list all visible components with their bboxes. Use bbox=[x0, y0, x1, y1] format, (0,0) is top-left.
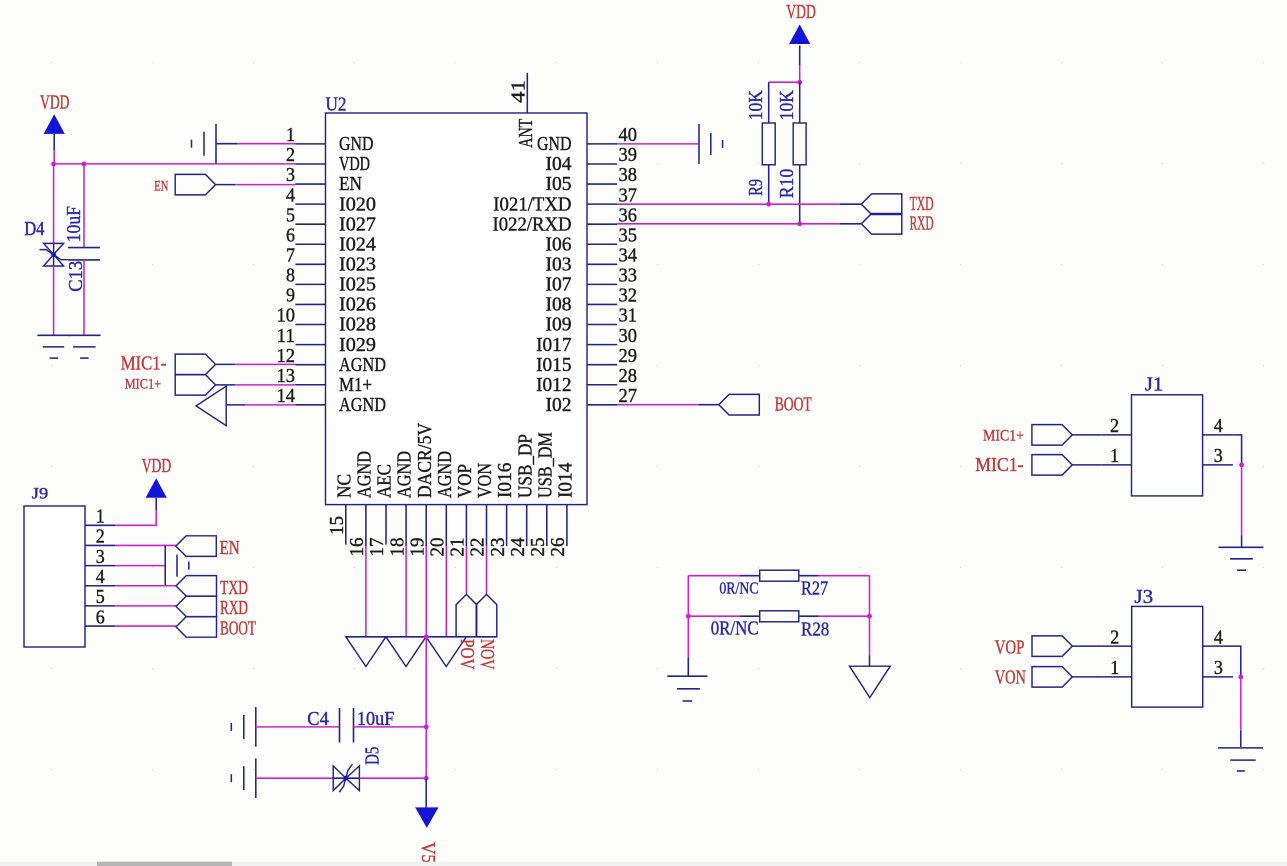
ground (D4) bbox=[37, 334, 70, 336]
wire J9 pin1 to VDD bbox=[115, 510, 156, 525]
wire R28 left bbox=[688, 615, 740, 617]
svg-text:32: 32 bbox=[619, 286, 638, 307]
svg-text:0R/NC: 0R/NC bbox=[719, 578, 758, 597]
svg-text:USB_DM: USB_DM bbox=[535, 432, 556, 498]
U2 pin 29 (I015) bbox=[587, 364, 617, 366]
svg-text:11: 11 bbox=[277, 326, 296, 347]
U2 pin 2 (VDD) bbox=[295, 163, 325, 165]
U2 pin 22 (VON) bbox=[486, 505, 488, 546]
svg-text:J1: J1 bbox=[1145, 374, 1163, 395]
wire MIC1- to J1 pin 1 bbox=[1072, 464, 1101, 466]
wire J1 pin4 to pin3 bbox=[1233, 435, 1242, 465]
U2 pin 21 (VOP) bbox=[465, 505, 467, 546]
port MIC1+ bbox=[175, 375, 215, 396]
J9 pin 1 bbox=[85, 524, 115, 526]
resistor R28 bbox=[760, 611, 799, 622]
U2 pin 25 (USB_DM) bbox=[546, 505, 548, 546]
capacitor C4 bbox=[339, 708, 341, 743]
ground (C13) bbox=[68, 334, 101, 336]
wire VOP to J3 pin 2 bbox=[1073, 645, 1102, 647]
svg-text:TXD: TXD bbox=[910, 194, 934, 215]
svg-text:34: 34 bbox=[619, 246, 638, 267]
power symbol VDD bbox=[789, 24, 810, 44]
svg-text:I029: I029 bbox=[339, 335, 376, 356]
svg-text:BOOT: BOOT bbox=[220, 618, 256, 639]
analog ground triangle 3 bbox=[426, 637, 466, 667]
U2 pin 8 (I025) bbox=[295, 283, 325, 285]
wire to ground bbox=[1241, 465, 1243, 536]
svg-text:I020: I020 bbox=[339, 194, 376, 215]
port VOP bbox=[456, 594, 477, 636]
svg-text:I021/TXD: I021/TXD bbox=[493, 194, 571, 215]
svg-text:I025: I025 bbox=[339, 275, 376, 296]
svg-text:MIC1+: MIC1+ bbox=[125, 376, 161, 392]
svg-text:0R/NC: 0R/NC bbox=[711, 619, 759, 640]
svg-text:D4: D4 bbox=[24, 219, 45, 240]
svg-text:19: 19 bbox=[407, 538, 428, 557]
svg-text:MIC1-: MIC1- bbox=[975, 455, 1023, 476]
svg-text:R10: R10 bbox=[777, 169, 798, 199]
svg-text:U2: U2 bbox=[326, 94, 347, 115]
svg-text:3: 3 bbox=[1214, 658, 1223, 679]
wire left drop bbox=[687, 576, 689, 617]
svg-text:AGND: AGND bbox=[339, 355, 386, 376]
svg-text:NC: NC bbox=[334, 474, 355, 498]
port EN bbox=[176, 536, 217, 557]
svg-text:R27: R27 bbox=[801, 578, 828, 599]
U2 pin 17 (AEC) bbox=[385, 505, 387, 545]
port MIC1- bbox=[1032, 455, 1072, 476]
svg-text:37: 37 bbox=[619, 185, 638, 206]
ground bbox=[667, 675, 707, 677]
power symbol VDD bbox=[44, 114, 65, 134]
svg-text:M1+: M1+ bbox=[339, 375, 372, 396]
wire R27 left bbox=[688, 575, 740, 577]
wire VDD stem bbox=[53, 134, 55, 150]
J1 pin 1 bbox=[1101, 464, 1131, 466]
svg-text:31: 31 bbox=[619, 306, 638, 327]
J3 pin 3 bbox=[1203, 676, 1233, 678]
U2 pin 32 (I08) bbox=[587, 303, 617, 305]
wire U2 pin 37 to TXD bbox=[617, 203, 840, 205]
svg-text:5: 5 bbox=[96, 587, 105, 608]
node junction VDD/R10 bbox=[797, 80, 802, 85]
wire J9 pin5 to RXD bbox=[115, 605, 176, 607]
wire VDD rail to U2 pin 2 bbox=[54, 163, 296, 165]
wire ground to U2 pin 1 bbox=[216, 143, 237, 145]
wire U2 pin 40 to ground bbox=[617, 143, 699, 145]
svg-text:18: 18 bbox=[387, 538, 408, 557]
wire J9 pin3 to ground bbox=[115, 565, 165, 567]
U2 pin 12 (AGND) bbox=[295, 364, 325, 366]
port VON bbox=[1032, 667, 1072, 688]
U2 pin 10 (I028) bbox=[295, 324, 325, 326]
svg-text:I02: I02 bbox=[546, 395, 572, 416]
ground bbox=[215, 124, 217, 164]
wire to ground left bbox=[687, 616, 689, 657]
wire D4 top lead bbox=[53, 164, 55, 244]
J1 pin 3 bbox=[1203, 464, 1233, 466]
U2 pin 26 (I014) bbox=[566, 505, 568, 546]
node junction R10/RXD bbox=[797, 221, 802, 226]
U2 pin 4 (I020) bbox=[295, 203, 325, 205]
wire R27 right bbox=[799, 575, 819, 577]
svg-text:I08: I08 bbox=[546, 295, 572, 316]
svg-text:3: 3 bbox=[1214, 446, 1223, 467]
U2 pin 40 (GND) bbox=[587, 143, 617, 145]
wire MIC1+ to U2 pin 13 bbox=[216, 384, 236, 386]
svg-text:RXD: RXD bbox=[220, 598, 248, 619]
wire to AGND right bbox=[869, 616, 871, 655]
svg-text:GND: GND bbox=[339, 134, 374, 155]
svg-text:I023: I023 bbox=[339, 255, 376, 276]
U2 pin 39 (I04) bbox=[587, 163, 617, 165]
J9 pin 2 bbox=[85, 544, 115, 546]
svg-text:8: 8 bbox=[286, 266, 295, 287]
svg-text:2: 2 bbox=[286, 145, 295, 166]
svg-text:MIC1+: MIC1+ bbox=[983, 428, 1024, 445]
U2 pin 33 (I07) bbox=[587, 283, 617, 285]
U2 pin 16 (AGND) bbox=[365, 505, 367, 546]
svg-text:26: 26 bbox=[548, 537, 569, 556]
U2 pin 24 (USB_DP) bbox=[526, 505, 528, 546]
port RXD bbox=[176, 596, 217, 617]
wire MIC1+ to J1 pin 2 bbox=[1072, 434, 1101, 436]
svg-text:41: 41 bbox=[509, 80, 530, 103]
svg-text:I024: I024 bbox=[339, 234, 376, 255]
svg-text:D5: D5 bbox=[363, 747, 384, 765]
resistor R10 bbox=[799, 82, 801, 123]
svg-text:I09: I09 bbox=[546, 315, 572, 336]
svg-text:I05: I05 bbox=[546, 174, 572, 195]
wire U2 pin 27 to BOOT bbox=[617, 404, 698, 406]
wire J9 pin4 to TXD bbox=[115, 585, 176, 587]
U2 pin 13 (M1+) bbox=[295, 384, 325, 386]
U2 pin 3 (EN) bbox=[295, 183, 325, 185]
U2 pin 6 (I024) bbox=[295, 243, 325, 245]
svg-text:ANT: ANT bbox=[516, 119, 537, 148]
U2 pin 11 (I029) bbox=[295, 344, 325, 346]
wire VDD stem bbox=[799, 46, 801, 66]
J9 pin 5 bbox=[85, 605, 115, 607]
svg-text:TXD: TXD bbox=[220, 578, 248, 599]
connector J1 body bbox=[1132, 395, 1203, 496]
port TXD bbox=[176, 576, 217, 597]
port MIC1+ bbox=[1032, 425, 1072, 446]
node junction C4 bbox=[424, 725, 429, 730]
svg-text:4: 4 bbox=[1214, 627, 1223, 648]
wire right drop bbox=[869, 576, 871, 617]
U2 pin 30 (I017) bbox=[587, 344, 617, 346]
wire MIC1- to U2 pin 12 bbox=[216, 363, 236, 365]
wire C13 top lead bbox=[83, 164, 85, 248]
wire D5 to junction bbox=[359, 777, 426, 779]
svg-text:17: 17 bbox=[367, 537, 388, 556]
resistor R9 bbox=[768, 82, 770, 123]
svg-text:10K: 10K bbox=[746, 90, 767, 120]
wire D4 bottom lead bbox=[53, 266, 55, 335]
wire R28 right bbox=[799, 615, 819, 617]
svg-text:24: 24 bbox=[508, 537, 529, 556]
port VON bbox=[476, 594, 497, 636]
svg-text:9: 9 bbox=[286, 286, 295, 307]
wire J9 pin6 to BOOT bbox=[115, 625, 176, 627]
svg-text:I014: I014 bbox=[556, 462, 577, 498]
svg-text:I06: I06 bbox=[546, 234, 572, 255]
J3 pin 4 bbox=[1203, 645, 1233, 647]
svg-text:NOV: NOV bbox=[476, 639, 497, 670]
svg-text:RXD: RXD bbox=[910, 214, 934, 235]
U2 pin 31 (I09) bbox=[587, 324, 617, 326]
ground bbox=[698, 124, 700, 164]
svg-text:AEC: AEC bbox=[375, 464, 396, 498]
svg-text:VON: VON bbox=[995, 668, 1026, 689]
svg-text:33: 33 bbox=[619, 266, 638, 287]
svg-text:12: 12 bbox=[277, 346, 296, 367]
svg-text:10uF: 10uF bbox=[64, 206, 85, 242]
port BOOT bbox=[719, 394, 760, 415]
svg-text:4: 4 bbox=[96, 567, 105, 588]
node junction J1 pin3 bbox=[1239, 463, 1244, 468]
port MIC1- bbox=[175, 354, 215, 375]
svg-text:I028: I028 bbox=[339, 315, 376, 336]
J9 pin 3 bbox=[85, 565, 115, 567]
svg-text:VOP: VOP bbox=[455, 464, 476, 498]
wire ground to D5 bbox=[256, 777, 333, 779]
svg-text:AGND: AGND bbox=[339, 395, 386, 416]
U2 pin 34 (I03) bbox=[587, 263, 617, 265]
svg-text:I026: I026 bbox=[339, 295, 376, 316]
port VOP bbox=[1032, 636, 1072, 657]
node junction VDD/D4 bbox=[51, 162, 56, 167]
capacitor C13 bbox=[68, 247, 100, 249]
wire J9 pin2 to EN bbox=[115, 544, 176, 546]
svg-text:VOP: VOP bbox=[995, 638, 1025, 659]
node junction R28 left bbox=[686, 614, 691, 619]
U2 pin 9 (I026) bbox=[295, 303, 325, 305]
J9 pin 4 bbox=[85, 585, 115, 587]
wire ground to C4 bbox=[256, 726, 340, 728]
svg-text:VDD: VDD bbox=[786, 2, 816, 23]
svg-text:3: 3 bbox=[286, 165, 295, 186]
svg-text:I015: I015 bbox=[536, 355, 571, 376]
port TXD bbox=[861, 194, 902, 215]
wire U2 pin 20 to AGND bar bbox=[445, 546, 447, 637]
U2 pin 27 (I02) bbox=[587, 404, 617, 406]
U2 pin 20 (AGND) bbox=[445, 505, 447, 546]
svg-text:J9: J9 bbox=[32, 485, 49, 502]
svg-text:C4: C4 bbox=[307, 709, 329, 730]
U2 pin 1 (GND) bbox=[295, 143, 325, 145]
svg-text:2: 2 bbox=[96, 527, 105, 548]
analog ground triangle bbox=[850, 666, 891, 697]
svg-text:28: 28 bbox=[619, 366, 638, 387]
U2 pin 28 (I012) bbox=[587, 384, 617, 386]
svg-text:23: 23 bbox=[488, 538, 509, 557]
svg-text:I04: I04 bbox=[546, 154, 572, 175]
svg-text:BOOT: BOOT bbox=[775, 395, 812, 416]
svg-text:I03: I03 bbox=[546, 255, 572, 276]
svg-text:I07: I07 bbox=[546, 275, 572, 296]
analog ground triangle (pin 14) bbox=[196, 386, 226, 426]
node junction R28 right bbox=[867, 614, 872, 619]
U2 pin 14 (AGND) bbox=[295, 404, 325, 406]
svg-text:35: 35 bbox=[619, 225, 638, 246]
wire J3 pin4 to pin3 bbox=[1233, 646, 1241, 677]
wire to ground bbox=[1240, 677, 1242, 731]
svg-text:J3: J3 bbox=[1134, 587, 1153, 608]
svg-text:29: 29 bbox=[619, 346, 638, 367]
wire C4 to junction bbox=[354, 726, 427, 728]
svg-text:14: 14 bbox=[277, 386, 296, 407]
node junction pin19/AGND bar bbox=[424, 634, 429, 639]
node junction J3 pin3 bbox=[1238, 675, 1243, 680]
svg-text:10K: 10K bbox=[777, 90, 798, 120]
analog ground triangle 1 bbox=[346, 637, 386, 667]
svg-text:4: 4 bbox=[286, 185, 295, 206]
svg-text:38: 38 bbox=[619, 165, 638, 186]
ground bbox=[255, 758, 257, 798]
svg-text:VDD: VDD bbox=[142, 456, 172, 477]
J1 pin 4 bbox=[1203, 434, 1233, 436]
IC U2 body bbox=[326, 113, 588, 505]
svg-text:6: 6 bbox=[286, 225, 295, 246]
wire to 5V arrow bbox=[425, 778, 427, 807]
svg-text:2: 2 bbox=[1110, 627, 1119, 648]
ground bbox=[1219, 546, 1264, 548]
wire U2 pin 19 (DACR/5V) down bbox=[425, 546, 427, 637]
U2 pin 23 (I016) bbox=[506, 505, 508, 546]
svg-text:16: 16 bbox=[347, 537, 368, 556]
svg-text:7: 7 bbox=[286, 246, 295, 267]
node junction R9/TXD bbox=[766, 202, 771, 207]
wire R9 top link bbox=[769, 81, 800, 83]
svg-text:15: 15 bbox=[327, 516, 348, 535]
analog ground bar bbox=[346, 636, 497, 638]
U2 pin 7 (I023) bbox=[295, 263, 325, 265]
svg-text:6: 6 bbox=[96, 607, 105, 628]
U2 pin 38 (I05) bbox=[587, 183, 617, 185]
svg-text:1: 1 bbox=[1110, 446, 1119, 467]
svg-text:27: 27 bbox=[619, 386, 638, 407]
svg-text:13: 13 bbox=[277, 366, 296, 387]
svg-text:POV: POV bbox=[456, 639, 477, 670]
wire U2 pin 22 to VON port bbox=[486, 546, 488, 594]
wire C13 bottom lead bbox=[83, 260, 85, 335]
svg-text:2: 2 bbox=[1110, 416, 1119, 437]
power symbol VDD bbox=[146, 478, 167, 498]
svg-text:VDD: VDD bbox=[40, 93, 70, 114]
svg-text:VON: VON bbox=[475, 463, 496, 498]
ground bbox=[1218, 747, 1263, 749]
svg-text:I016: I016 bbox=[495, 462, 516, 498]
wire VON to J3 pin 1 bbox=[1073, 676, 1102, 678]
svg-text:I017: I017 bbox=[536, 335, 572, 356]
wire pin19 branch down to 5V bbox=[425, 637, 427, 778]
svg-text:EN: EN bbox=[220, 538, 240, 559]
ground bbox=[255, 707, 257, 747]
svg-text:21: 21 bbox=[448, 538, 469, 557]
port EN bbox=[175, 174, 215, 195]
svg-text:R9: R9 bbox=[746, 179, 767, 196]
svg-text:10: 10 bbox=[277, 306, 296, 327]
svg-text:4: 4 bbox=[1214, 416, 1223, 437]
resistor R27 bbox=[760, 570, 799, 581]
svg-text:3: 3 bbox=[96, 547, 105, 568]
svg-text:I012: I012 bbox=[536, 375, 571, 396]
svg-text:1: 1 bbox=[1110, 658, 1119, 679]
svg-text:AGND: AGND bbox=[395, 451, 416, 498]
node junction D5 bbox=[424, 776, 429, 781]
svg-text:20: 20 bbox=[428, 538, 449, 557]
connector J3 body bbox=[1132, 606, 1203, 707]
svg-text:AGND: AGND bbox=[355, 451, 376, 498]
J1 pin 2 bbox=[1101, 434, 1131, 436]
svg-text:1: 1 bbox=[286, 125, 295, 146]
svg-text:AGND: AGND bbox=[435, 451, 456, 498]
diode D4 (bidirectional TVS) bbox=[44, 243, 64, 254]
connector J9 body bbox=[24, 506, 85, 647]
svg-text:VDD: VDD bbox=[339, 154, 370, 175]
J3 pin 1 bbox=[1101, 676, 1131, 678]
svg-text:30: 30 bbox=[619, 326, 638, 347]
svg-text:I027: I027 bbox=[339, 214, 376, 235]
U2 pin 15 (NC) bbox=[345, 505, 347, 545]
svg-text:1: 1 bbox=[96, 507, 105, 528]
U2 pin 36 (I022/RXD) bbox=[587, 223, 617, 225]
port BOOT bbox=[176, 617, 217, 638]
svg-text:MIC1-: MIC1- bbox=[121, 354, 167, 375]
svg-text:EN: EN bbox=[339, 174, 362, 195]
J9 pin 6 bbox=[85, 625, 115, 627]
svg-text:R28: R28 bbox=[801, 620, 829, 641]
svg-text:V5: V5 bbox=[417, 842, 438, 863]
node junction C13 branch bbox=[82, 162, 87, 167]
wire U2 pin 16 to AGND bar bbox=[365, 546, 367, 637]
wire U2 pin 21 to VOP port bbox=[465, 546, 467, 594]
wire EN to U2 pin 3 bbox=[216, 184, 236, 186]
U2 pin 41 (ANT) bbox=[526, 73, 528, 113]
U2 pin 35 (I06) bbox=[587, 243, 617, 245]
ground bbox=[164, 546, 166, 586]
U2 pin 19 (DACR/5V) bbox=[425, 505, 427, 546]
analog ground triangle 2 bbox=[386, 637, 426, 667]
svg-text:5: 5 bbox=[286, 205, 295, 226]
svg-text:22: 22 bbox=[468, 538, 489, 557]
port RXD bbox=[861, 214, 902, 235]
power symbol 5V bbox=[415, 807, 438, 828]
wire AGND to U2 pin 14 bbox=[226, 404, 245, 406]
svg-text:39: 39 bbox=[619, 145, 638, 166]
diode D5 (bidirectional TVS) bbox=[333, 766, 346, 791]
U2 pin 18 (AGND) bbox=[405, 505, 407, 546]
U2 pin 5 (I027) bbox=[295, 223, 325, 225]
J3 pin 2 bbox=[1101, 645, 1131, 647]
svg-text:GND: GND bbox=[537, 134, 572, 155]
wire U2 pin 18 to AGND bar bbox=[405, 546, 407, 637]
svg-text:EN: EN bbox=[154, 178, 168, 194]
svg-text:USB_DP: USB_DP bbox=[515, 434, 536, 498]
svg-text:I022/RXD: I022/RXD bbox=[493, 214, 572, 235]
U2 pin 37 (I021/TXD) bbox=[587, 203, 617, 205]
svg-text:DACR/5V: DACR/5V bbox=[415, 423, 436, 498]
svg-text:40: 40 bbox=[619, 125, 638, 146]
svg-text:25: 25 bbox=[528, 538, 549, 557]
wire U2 pin 36 to RXD bbox=[617, 223, 840, 225]
